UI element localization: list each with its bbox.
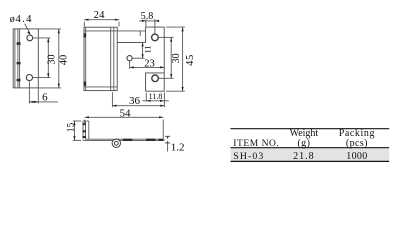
svg-text:23: 23 (144, 58, 155, 69)
svg-text:(pcs): (pcs) (346, 138, 368, 149)
ext 45 top (166, 26, 185, 28)
svg-text:24: 24 (94, 9, 106, 21)
dim 1.2 tick top (165, 135, 170, 137)
dim 5.8 line (139, 20, 159, 22)
dim 15 ext top (73, 120, 81, 122)
svg-text:4.4: 4.4 (15, 13, 32, 25)
dim line 40 (58, 29, 60, 88)
block inner bottom line (84, 86, 117, 88)
leader line dia4.4 (25, 24, 30, 34)
block outline (84, 27, 117, 90)
ext top edge (39, 28, 61, 30)
upturn tick 3 (83, 136, 86, 138)
dim 30 line middle (170, 37, 172, 78)
dim6 ext below hole (28, 81, 30, 103)
dim 5.8 ext left (145, 19, 147, 27)
svg-text:21.8: 21.8 (293, 151, 315, 162)
ext 30 bottom (159, 77, 174, 79)
dim6 line (29, 101, 58, 103)
block tick bottom (84, 82, 87, 86)
small hole (127, 56, 132, 61)
svg-text:15: 15 (66, 123, 76, 133)
upturn right line (88, 121, 90, 139)
dim 15 line (74, 121, 76, 140)
svg-text:30: 30 (171, 53, 182, 63)
block inner vertical 2 (113, 27, 115, 90)
dim 54 line (85, 116, 164, 118)
knuckle strip line 1 (17, 29, 19, 88)
svg-text:36: 36 (129, 95, 141, 107)
bar hole bottom (152, 75, 159, 82)
dim 1.2 arrow up (167, 141, 169, 143)
arm top line (117, 30, 145, 32)
dim 24 ext left (83, 22, 85, 27)
svg-text:ø: ø (10, 14, 15, 25)
ext bottom edge (39, 87, 61, 89)
ext bottom hole (33, 77, 50, 79)
bar hole top (152, 34, 159, 41)
dim 1.2 arrow down (167, 137, 169, 139)
svg-text:1000: 1000 (346, 151, 367, 162)
dim 36 ext right (163, 93, 165, 108)
dim 1.2 vertical (167, 143, 169, 152)
svg-text:40: 40 (58, 55, 69, 66)
dim 24 ext right (118, 22, 120, 27)
svg-text:11: 11 (143, 45, 153, 53)
knuckle tick 1 (17, 42, 21, 45)
upturn left line (82, 121, 84, 140)
ext 30 top (159, 36, 174, 38)
arm bottom line (117, 42, 145, 44)
svg-text:30: 30 (47, 55, 58, 65)
svg-text:(g): (g) (297, 138, 310, 149)
block inner vertical 1 (110, 27, 112, 90)
svg-text:1.2: 1.2 (171, 142, 185, 154)
dim 23 ext below small hole (129, 61, 131, 69)
svg-text:45: 45 (185, 54, 196, 66)
plate slot 1 (123, 139, 133, 141)
dim 36 line (112, 105, 164, 107)
small hole leader (132, 57, 144, 59)
dim 36 ext left (111, 92, 113, 107)
leaf left inner edge line (14, 29, 16, 88)
ext 45 bottom (166, 90, 185, 92)
upturn tick 1 (83, 123, 86, 125)
knuckle tick 2 (17, 62, 21, 65)
bottom border (231, 160, 390, 162)
dim 11.8 ext left (145, 93, 147, 102)
knuckle strip line 2 (19, 29, 21, 88)
knuckle tick 3 (17, 79, 21, 82)
dim 54 ext right (162, 120, 164, 139)
plate bottom line (83, 140, 165, 142)
dim 45 line (182, 27, 184, 91)
dim 11.8 line (143, 100, 169, 102)
upturn inner line (85, 121, 87, 140)
dim line 30 (47, 38, 49, 78)
upturn top cap (83, 120, 89, 122)
block inner left line (85, 27, 87, 90)
svg-text:54: 54 (120, 107, 132, 119)
arm step (139, 31, 141, 36)
dim 23 line (130, 66, 165, 68)
dim 11 line (142, 43, 144, 59)
dim 54 ext left (84, 120, 86, 125)
upturn tick 2 (83, 130, 86, 132)
svg-text:5.8: 5.8 (141, 11, 154, 22)
knuckle circle outer (112, 139, 120, 147)
dim 24 line (84, 19, 119, 21)
leaf outline (13, 29, 38, 88)
plate slot 2 (146, 139, 156, 141)
dim 15 ext bottom (73, 139, 81, 141)
svg-text:SH-03: SH-03 (233, 151, 264, 162)
block inner top line (84, 30, 117, 32)
right bar outline with notch (146, 27, 165, 91)
dim 1.2 tick bottom (165, 142, 170, 144)
hole top (27, 35, 33, 41)
top border (231, 128, 390, 130)
plate slot 3 (158, 139, 163, 141)
data row gray band (231, 148, 390, 161)
block tick top (84, 33, 87, 37)
svg-text:6: 6 (42, 92, 48, 104)
dim 5.8 ext hole center (154, 19, 156, 33)
plate top line (86, 138, 165, 140)
header underline (231, 147, 390, 149)
knuckle circle inner (114, 141, 118, 145)
svg-text:11.8: 11.8 (149, 92, 163, 101)
hole bottom (26, 75, 32, 81)
dim6 ext below edge (37, 89, 39, 104)
svg-text:ITEM NO.: ITEM NO. (233, 139, 279, 149)
ext top hole (33, 37, 50, 39)
